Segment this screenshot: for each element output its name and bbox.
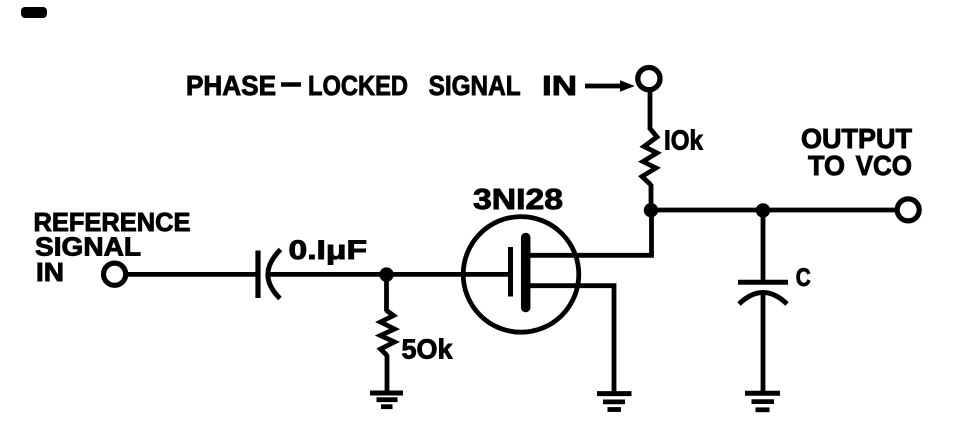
wire 50k to ground xyxy=(385,355,390,392)
transistor channel bar xyxy=(521,238,531,308)
svg-text:IOk: IOk xyxy=(664,125,703,156)
capacitor C xyxy=(738,282,788,304)
svg-text:PHASE: PHASE xyxy=(186,70,276,101)
svg-text:C: C xyxy=(796,264,811,292)
label PHASE-LOCKED SIGNAL IN xyxy=(186,70,577,101)
resistor 50k xyxy=(381,311,395,357)
svg-text:LOCKED: LOCKED xyxy=(308,70,408,101)
svg-text:0.IμF: 0.IμF xyxy=(289,235,368,265)
wire terminal to 0.1uF xyxy=(126,272,256,277)
wire source lead xyxy=(528,286,614,392)
ground under C xyxy=(745,393,780,410)
svg-text:5Ok: 5Ok xyxy=(402,334,454,365)
terminal: output to VCO xyxy=(897,199,919,221)
terminal: reference signal in xyxy=(104,263,126,285)
svg-text:IN: IN xyxy=(542,70,577,101)
node: drain junction xyxy=(644,203,658,217)
arrow to phase-locked terminal xyxy=(585,80,635,92)
svg-text:IN: IN xyxy=(36,257,64,287)
wire terminal to 10k xyxy=(648,90,653,130)
wire node to capacitor C xyxy=(761,210,766,281)
svg-text:VCO: VCO xyxy=(856,150,912,181)
node: capacitor C tap xyxy=(756,203,770,217)
wire capacitor C to ground xyxy=(761,295,766,392)
transistor Q1 3N128 body xyxy=(463,217,579,333)
node: 50k tap xyxy=(379,267,393,281)
capacitor 0.1uF xyxy=(258,250,281,299)
stray scan mark top-left xyxy=(21,7,47,18)
wire output line xyxy=(650,208,895,213)
label REFERENCE SIGNAL IN xyxy=(34,207,191,287)
wire 0.1uF to gate xyxy=(266,272,508,277)
resistor 10k xyxy=(642,129,657,186)
wire drain lead xyxy=(528,210,652,255)
transistor gate bar xyxy=(508,247,513,297)
wire 10k to junction xyxy=(649,184,654,212)
svg-text:TO: TO xyxy=(808,150,845,181)
label OUTPUT TO VCO xyxy=(801,123,912,181)
svg-text:SIGNAL: SIGNAL xyxy=(429,70,521,101)
ground under source xyxy=(597,394,632,410)
svg-text:3NI28: 3NI28 xyxy=(473,184,563,216)
ground under 50k xyxy=(370,393,403,407)
wire node to 50k xyxy=(384,274,389,312)
terminal: phase-locked signal in xyxy=(638,68,660,90)
